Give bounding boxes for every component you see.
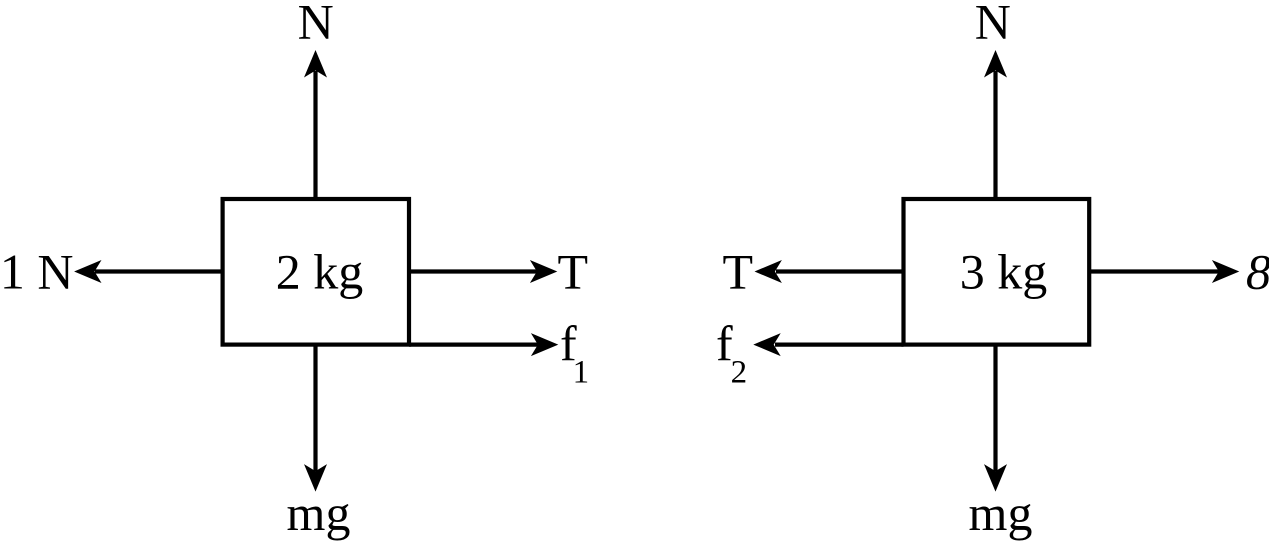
block 3 kg (904, 199, 1090, 345)
force arrow N (left block, up) (304, 50, 327, 200)
svg-text:2 kg: 2 kg (276, 243, 364, 299)
svg-text:mg: mg (287, 485, 351, 541)
force arrow f1 (left block, right at bottom edge) (409, 333, 558, 356)
svg-text:1 N: 1 N (0, 243, 74, 299)
svg-text:T: T (558, 243, 589, 299)
block 2 kg (223, 199, 409, 345)
svg-text:mg: mg (969, 485, 1033, 541)
force arrow mg (right block, down) (984, 345, 1007, 492)
force arrow T (right block, left) (755, 260, 904, 283)
force arrow mg (left block, down) (304, 345, 327, 492)
svg-text:T: T (722, 243, 753, 299)
svg-text:3 kg: 3 kg (960, 243, 1048, 299)
force arrow 1 N (left block, left) (74, 260, 223, 283)
svg-text:8: 8 (1246, 243, 1269, 299)
force arrow f2 (right block, left at bottom edge) (753, 333, 903, 356)
force arrow T (left block, right) (409, 260, 557, 283)
force arrow 8 (right block, right) (1089, 260, 1239, 283)
svg-text:N: N (975, 0, 1011, 49)
force arrow N (right block, up) (984, 50, 1007, 200)
svg-text:N: N (298, 0, 334, 49)
